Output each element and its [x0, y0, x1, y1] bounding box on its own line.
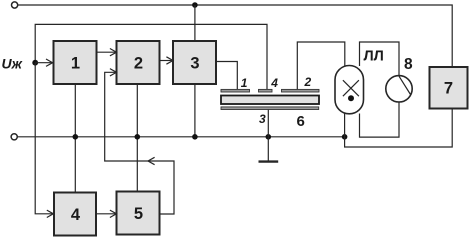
- svg-text:Uж: Uж: [2, 55, 23, 71]
- svg-text:4: 4: [71, 206, 81, 224]
- svg-text:2: 2: [134, 54, 143, 72]
- wire: lamp bottom-left pin to rail: [344, 114, 346, 137]
- block 7: [430, 67, 468, 109]
- wire: lamp bottom-right pin to meter bottom: [360, 102, 400, 137]
- wire: block 2 bottom through rail to block 5 top: [136, 84, 138, 192]
- wire: feedback block 5 right up-over to block 2 lower input: [105, 72, 174, 214]
- capacitor plate 4: [259, 89, 273, 92]
- wire: node down to block 4 input arrow: [35, 63, 53, 214]
- wire: bottom rail: [18, 136, 345, 138]
- svg-text:8: 8: [404, 56, 413, 73]
- lamp X cross: [343, 80, 359, 96]
- terminal top-left: [12, 2, 18, 8]
- node: top junction: [192, 2, 198, 8]
- wire: node to block 1 input arrow: [35, 62, 52, 64]
- svg-text:4: 4: [270, 76, 278, 90]
- svg-text:7: 7: [444, 80, 453, 98]
- svg-text:3: 3: [259, 112, 266, 126]
- wire: plate 2 riser over to lamp top-left pin: [297, 42, 345, 89]
- block 3: [173, 41, 216, 84]
- meter 8 (photodetector): [386, 76, 412, 102]
- wire: block 4 to block 5: [96, 213, 115, 215]
- wire: block 3 output to plate 1: [216, 62, 237, 90]
- electrode bottom plate 3: [221, 107, 319, 110]
- wire: top bus to block 7: [18, 5, 452, 67]
- node: rail junction under block 2: [135, 134, 141, 140]
- wire: rail to block 7 bottom: [345, 109, 453, 148]
- electrode mid plate: [221, 96, 319, 105]
- block 1: [54, 41, 97, 84]
- wire: block 3 bottom to rail: [194, 84, 196, 137]
- node A (Uzh input): [32, 60, 38, 66]
- block 5: [117, 192, 160, 235]
- wire: Uzh node up and over to plate 4: [35, 24, 267, 89]
- svg-text:6: 6: [297, 113, 305, 130]
- wire: lamp top-right pin over to meter top: [360, 42, 400, 76]
- capacitor plate 2: [282, 89, 320, 92]
- lamp cathode dot: [348, 95, 354, 101]
- block 2: [117, 41, 160, 84]
- wire: block 2 to block 3: [160, 60, 172, 62]
- node: rail junction at ground: [266, 134, 272, 140]
- svg-text:1: 1: [241, 76, 248, 90]
- svg-text:1: 1: [71, 54, 80, 72]
- svg-text:3: 3: [190, 54, 199, 72]
- svg-text:5: 5: [134, 205, 143, 223]
- lamp LL (fluorescent lamp): [335, 66, 364, 114]
- wire: block 1 to block 2: [97, 51, 116, 53]
- node: rail junction under lamp: [342, 134, 348, 140]
- block 4: [54, 193, 96, 236]
- wire: plate 3 tap down to ground: [267, 110, 269, 162]
- svg-text:ЛЛ: ЛЛ: [364, 48, 384, 64]
- svg-text:2: 2: [304, 75, 312, 89]
- capacitor plate 1 (electrode assembly 6): [221, 89, 250, 92]
- node: rail junction under block 3: [192, 134, 198, 140]
- wire: junction down to block 3 top: [194, 5, 196, 41]
- terminal bottom-left: [11, 134, 17, 140]
- ground: [259, 160, 279, 162]
- wire: block 1 bottom through rail to block 4 top: [74, 84, 76, 193]
- node: rail junction under block 1: [73, 134, 79, 140]
- wire: feedback left-pointing arrowhead: [148, 157, 155, 164]
